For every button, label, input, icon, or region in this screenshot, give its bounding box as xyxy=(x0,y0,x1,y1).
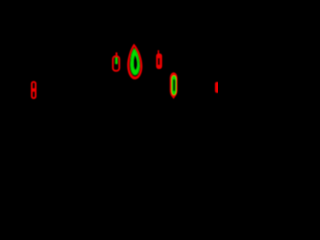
candle 5: green body with red fringe, bottom tip xyxy=(170,72,178,99)
candle 6: partial red blob at right edge xyxy=(215,82,220,93)
candle 4: solid red with top wick xyxy=(156,50,162,69)
candle 2: green body with red fringe, top spike xyxy=(113,52,119,70)
candle 3: large green teardrop with red fringe xyxy=(127,44,142,80)
candle 1: hollow red double ring (left) xyxy=(32,82,36,98)
